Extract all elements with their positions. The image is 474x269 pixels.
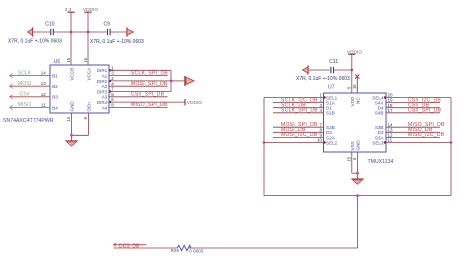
net label CSn_SPI_DB xyxy=(131,92,165,98)
svg-text:B4: B4 xyxy=(52,105,58,110)
pin dot DIR2 xyxy=(109,80,111,82)
node VDDIO/C9 junction xyxy=(87,31,90,34)
pin B3 number 12 xyxy=(41,92,47,97)
pin name A1 xyxy=(102,74,108,79)
svg-text:SEL3: SEL3 xyxy=(372,140,384,145)
wire xyxy=(88,31,107,33)
op-amp U7 body (TMUX1134) xyxy=(324,85,387,152)
svg-text:3.3: 3.3 xyxy=(65,7,72,13)
svg-text:14: 14 xyxy=(41,71,47,76)
svg-text:MISO_SPI_DB: MISO_SPI_DB xyxy=(131,102,168,108)
wire xyxy=(386,136,440,138)
node VSS/GND junction xyxy=(356,172,359,175)
svg-text:MISO_I2C_DB: MISO_I2C_DB xyxy=(408,132,445,138)
node 3.3/C10 junction xyxy=(70,31,73,34)
pin name A3 xyxy=(102,95,108,100)
capacitor C11 xyxy=(329,59,338,73)
net label SCLK_SPI_DB xyxy=(281,108,318,114)
net label MISO_SPI_DB xyxy=(131,102,168,108)
wire xyxy=(109,91,171,93)
pin name S3A xyxy=(375,135,385,140)
svg-text:DIR2: DIR2 xyxy=(97,79,108,84)
net label MOSI_SPI_DB xyxy=(281,122,318,128)
svg-text:VSS: VSS xyxy=(350,141,355,150)
pin 6 number xyxy=(352,157,357,160)
port DCS_DB xyxy=(113,243,146,250)
svg-text:SN74AXC4T774PWR: SN74AXC4T774PWR xyxy=(3,118,54,124)
pin D4 number 18 xyxy=(388,103,394,108)
net label CSn_SPI_DB xyxy=(408,108,442,114)
wire xyxy=(273,136,324,138)
wire xyxy=(386,102,440,104)
wire xyxy=(386,97,451,99)
value label C9 xyxy=(90,39,144,45)
net label MOSI_I2C_DB xyxy=(281,132,318,138)
value label C10 xyxy=(8,39,62,45)
svg-text:SCLK_SPI_DB: SCLK_SPI_DB xyxy=(281,108,318,114)
pin A3 number 5 xyxy=(111,92,114,97)
svg-text:U6: U6 xyxy=(54,59,61,65)
wire xyxy=(357,196,359,248)
pin name DIR4 xyxy=(97,100,108,105)
pin 5 number xyxy=(347,86,352,89)
svg-text:A4: A4 xyxy=(102,105,108,110)
wire xyxy=(109,85,168,87)
svg-text:17: 17 xyxy=(388,108,394,113)
pin A4 number 8 xyxy=(111,103,114,108)
value label C11 xyxy=(296,76,350,82)
ground (U7) xyxy=(351,179,364,184)
pin A2 number 4 xyxy=(111,81,114,86)
pin name SEL1 xyxy=(326,95,338,100)
pin DIR4 number 6 xyxy=(111,97,114,102)
pin name S3B xyxy=(375,125,384,130)
net label CSn_I2C_DB xyxy=(408,97,441,103)
wire xyxy=(264,97,324,99)
pin OEn name xyxy=(87,102,92,112)
wire xyxy=(386,142,451,144)
pin SEL3 number 11 xyxy=(388,138,393,143)
wire xyxy=(87,32,89,65)
pin VSS name xyxy=(350,141,355,150)
wire xyxy=(273,112,324,114)
svg-text:GND: GND xyxy=(356,140,361,151)
wire xyxy=(53,31,88,33)
wire xyxy=(273,131,324,133)
pin name S2B xyxy=(326,125,335,130)
pin S1A number 2 xyxy=(319,98,322,103)
pin VDD name xyxy=(350,96,355,106)
op-amp U6 body (SN74AXC4T774PWR) xyxy=(50,59,109,113)
pin name DIR2 xyxy=(97,79,108,84)
svg-text:B3: B3 xyxy=(52,95,58,100)
svg-text:VDDIO: VDDIO xyxy=(83,7,98,13)
pin name DIR1 xyxy=(97,68,108,73)
wire xyxy=(386,112,440,114)
svg-text:A3: A3 xyxy=(102,95,108,100)
svg-text:VCCA: VCCA xyxy=(87,67,92,81)
svg-text:A2: A2 xyxy=(102,84,108,89)
wire xyxy=(334,69,352,71)
pin name D4 xyxy=(378,106,384,111)
wire xyxy=(70,32,72,65)
pin GND name xyxy=(69,101,74,112)
wire xyxy=(109,101,185,103)
pin SEL1 number 1 xyxy=(319,93,322,98)
pin name SEL4 xyxy=(372,95,384,100)
net label MISO_I2C_DB xyxy=(408,132,445,138)
svg-text:VDD: VDD xyxy=(350,96,355,106)
ground xyxy=(65,141,78,146)
pin name SEL2 xyxy=(326,140,338,145)
svg-text:GND: GND xyxy=(69,101,74,112)
net label MOSI_DB xyxy=(281,127,306,133)
pin DIR3 number 7 xyxy=(111,87,114,92)
pin name A4 xyxy=(102,105,108,110)
no-connect NC xyxy=(355,74,359,93)
svg-text:12: 12 xyxy=(41,92,47,97)
svg-text:SCLK: SCLK xyxy=(18,70,32,76)
svg-text:11: 11 xyxy=(388,138,393,143)
net label MOSI_SPI_DB xyxy=(131,81,168,87)
wire xyxy=(450,98,452,196)
power flag 3.3 xyxy=(65,7,75,32)
pin 9 number xyxy=(83,117,88,120)
svg-text:C11: C11 xyxy=(329,59,338,65)
pin name D1 xyxy=(326,106,332,111)
net label MISO_DB xyxy=(408,127,433,133)
port CSn xyxy=(10,92,51,100)
part number label U6 xyxy=(3,118,54,124)
wire xyxy=(171,80,185,82)
svg-text:CSn: CSn xyxy=(19,92,29,98)
pin 10 number xyxy=(66,116,71,121)
pin name B1 xyxy=(52,74,58,79)
wire xyxy=(386,107,440,109)
svg-text:C10: C10 xyxy=(45,22,54,28)
node GND/OEn junction xyxy=(70,134,73,137)
pin name S4A xyxy=(375,101,385,106)
pin B1 number 14 xyxy=(41,71,47,76)
port MOSI xyxy=(10,81,51,89)
svg-text:B1: B1 xyxy=(52,74,58,79)
svg-text:R26: R26 xyxy=(171,248,180,253)
pin VCCB name xyxy=(69,68,74,81)
wire xyxy=(386,131,440,133)
svg-text:OEn: OEn xyxy=(87,102,92,112)
svg-text:S1B: S1B xyxy=(326,111,335,116)
pin name S1B xyxy=(326,111,335,116)
pin name D3 xyxy=(378,130,384,135)
wire xyxy=(273,102,324,104)
svg-text:U7: U7 xyxy=(328,85,335,91)
svg-text:13: 13 xyxy=(41,81,47,86)
pin name B3 xyxy=(52,95,58,100)
off-sheet connector arrow (DIR control, right) xyxy=(185,76,194,86)
wire xyxy=(189,247,358,249)
pin dot SEL2 xyxy=(323,141,325,143)
svg-text:MOSI_SPI_DB: MOSI_SPI_DB xyxy=(131,81,168,87)
node SEL net junction xyxy=(356,194,359,197)
pin 15 number xyxy=(347,156,352,161)
wire xyxy=(71,113,73,141)
pin dot DIR1 xyxy=(109,69,111,71)
svg-text:TMUX1134: TMUX1134 xyxy=(368,159,394,165)
wire xyxy=(357,152,359,179)
pin name SEL3 xyxy=(372,140,384,145)
pin NC name xyxy=(356,97,361,104)
svg-text:CSn_SPI_DB: CSn_SPI_DB xyxy=(131,92,165,98)
pin name B4 xyxy=(52,105,58,110)
capacitor C9 xyxy=(104,22,111,36)
pin DIR1 number 1 xyxy=(111,65,114,70)
pin S4A number 19 xyxy=(388,98,394,103)
svg-text:DIR1: DIR1 xyxy=(97,68,108,73)
wire xyxy=(308,69,330,71)
power flag VDDIO (DIR4) xyxy=(185,99,202,106)
svg-text:B2: B2 xyxy=(52,84,58,89)
svg-text:CSn_SPI_DB: CSn_SPI_DB xyxy=(408,108,442,114)
wire xyxy=(109,69,171,71)
net label SCLK_I2C_DB xyxy=(281,97,318,103)
net label SCLK_DB xyxy=(281,103,306,109)
wire xyxy=(386,126,440,128)
svg-text:10: 10 xyxy=(317,138,323,143)
svg-text:X7R, 0.1uF +-10% 0603: X7R, 0.1uF +-10% 0603 xyxy=(90,39,144,45)
pin name S2A xyxy=(326,135,336,140)
pin B2 number 13 xyxy=(41,81,47,86)
svg-text:15: 15 xyxy=(347,156,352,161)
pin GND name (U7) xyxy=(356,140,361,151)
pin S2B number 7 xyxy=(319,122,322,127)
svg-text:DIR3: DIR3 xyxy=(97,89,108,94)
power flag VDDIO xyxy=(83,7,98,32)
pin 16 number xyxy=(352,84,357,89)
node SEL2 junction xyxy=(263,141,266,144)
svg-text:C9: C9 xyxy=(104,22,111,28)
pin SEL4 number 20 xyxy=(388,93,394,98)
svg-text:X7R, 0.1uF +-10% 0603: X7R, 0.1uF +-10% 0603 xyxy=(8,39,62,45)
wire xyxy=(273,107,324,109)
capacitor C10 xyxy=(45,22,54,36)
pin 16 number xyxy=(83,57,88,62)
svg-text:10: 10 xyxy=(66,116,71,121)
pin DIR2 number 2 xyxy=(111,76,114,81)
port MISO xyxy=(10,102,51,110)
svg-text:SCLK_SPI_DB: SCLK_SPI_DB xyxy=(131,70,168,76)
pin 15 number xyxy=(66,57,71,62)
wire xyxy=(109,96,168,98)
resistor R26 xyxy=(171,245,191,253)
svg-text:VDDIO: VDDIO xyxy=(187,100,202,106)
node SEL3 junction xyxy=(450,141,453,144)
svg-text:X7R, 0.1uF +-10% 0603: X7R, 0.1uF +-10% 0603 xyxy=(296,76,350,82)
wire xyxy=(263,98,265,196)
pin dot SEL1 xyxy=(323,96,325,98)
svg-text:MOSI_I2C_DB: MOSI_I2C_DB xyxy=(281,132,318,138)
wire xyxy=(351,70,353,93)
svg-text:11: 11 xyxy=(41,102,46,107)
wire xyxy=(352,152,358,173)
wire xyxy=(110,31,127,33)
pin dot DIR4 xyxy=(109,101,111,103)
svg-text:MOSI: MOSI xyxy=(18,81,31,87)
svg-text:16: 16 xyxy=(352,84,357,89)
svg-text:VDDIO: VDDIO xyxy=(347,49,362,55)
svg-text:15: 15 xyxy=(66,57,71,62)
net label CSn_DB xyxy=(408,103,430,109)
pin name A2 xyxy=(102,84,108,89)
pin name D2 xyxy=(326,130,332,135)
pin name S1A xyxy=(326,101,336,106)
pin dot SEL3 xyxy=(384,141,386,143)
off-sheet connector arrow (VDDIO rail, right) xyxy=(127,27,134,36)
wire xyxy=(147,247,178,249)
svg-text:MISO: MISO xyxy=(18,102,31,108)
pin B4 number 11 xyxy=(41,102,46,107)
node VDD/C11 junction xyxy=(350,69,353,72)
pin name DIR3 xyxy=(97,89,108,94)
svg-text:NC: NC xyxy=(356,97,361,104)
pin S1B number 4 xyxy=(319,108,322,113)
wire xyxy=(109,75,168,77)
pin S3A number 12 xyxy=(388,133,394,138)
wire xyxy=(109,80,171,82)
pin D1 number 3 xyxy=(319,103,322,108)
pin D2 number 8 xyxy=(319,127,322,132)
pin name S4B xyxy=(375,111,384,116)
svg-text:DCS_DB: DCS_DB xyxy=(119,244,140,250)
wire xyxy=(170,70,172,91)
net label MISO_SPI_DB xyxy=(408,122,445,128)
svg-text:SEL2: SEL2 xyxy=(326,140,338,145)
node DIR tie junction xyxy=(170,80,173,83)
value label R26 xyxy=(189,248,203,253)
pin dot SEL4 xyxy=(384,96,386,98)
pin A1 number 3 xyxy=(111,71,114,76)
wire xyxy=(273,126,324,128)
wire xyxy=(264,142,324,144)
pin dot DIR3 xyxy=(109,90,111,92)
pin S2A number 9 xyxy=(319,133,322,138)
off-sheet connector arrow (VDDIO, left) xyxy=(303,65,309,74)
svg-text:0 0603: 0 0603 xyxy=(189,248,203,253)
pin VCCA name xyxy=(87,67,92,81)
pin D3 number 13 xyxy=(388,127,394,132)
power flag VDDIO (U7) xyxy=(347,49,362,70)
port SCLK xyxy=(10,70,51,78)
pin S4B number 17 xyxy=(388,108,394,113)
wire xyxy=(264,195,451,197)
svg-text:S4B: S4B xyxy=(375,111,384,116)
wire xyxy=(33,31,51,33)
part number label TMUX1134 xyxy=(368,159,394,165)
off-sheet connector arrow (3.3 rail, left) xyxy=(28,27,33,36)
pin name B2 xyxy=(52,84,58,89)
net label SCLK_SPI_DB xyxy=(131,70,168,76)
svg-text:DIR4: DIR4 xyxy=(97,100,108,105)
svg-text:A1: A1 xyxy=(102,74,108,79)
svg-text:16: 16 xyxy=(83,57,88,62)
pin SEL2 number 10 xyxy=(317,138,323,143)
pin S3B number 14 xyxy=(388,122,394,127)
svg-text:VCCB: VCCB xyxy=(69,68,74,81)
wire xyxy=(72,113,89,135)
wire xyxy=(109,106,168,108)
